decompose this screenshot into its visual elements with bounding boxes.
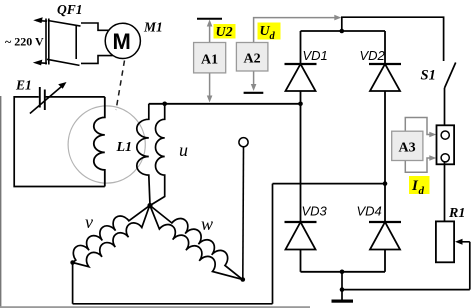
gray link A3 top — [405, 118, 432, 135]
stator winding w (double scalloped line) — [142, 197, 249, 289]
svg-text:S1: S1 — [421, 68, 436, 84]
node: w terminal — [241, 277, 246, 282]
svg-text:E1: E1 — [15, 78, 32, 93]
node ground junction — [340, 287, 345, 292]
svg-text:A3: A3 — [399, 141, 416, 156]
switch S1 — [445, 63, 456, 89]
wire bottom right run — [342, 289, 470, 291]
stator winding u (double scalloped line) — [137, 104, 150, 206]
wire AC2 riser — [272, 184, 274, 304]
measuring unit A3 — [392, 131, 423, 160]
diode VD2 — [369, 64, 401, 91]
measuring unit A2 — [236, 43, 268, 72]
ground — [332, 300, 354, 303]
wire S1 to current terminal block — [444, 88, 446, 132]
terminal bar above A1 — [197, 18, 222, 20]
label Id — [409, 176, 430, 194]
common bar below A2 — [244, 92, 264, 94]
svg-text:v: v — [85, 212, 93, 232]
svg-text:VD1: VD1 — [303, 48, 328, 63]
diode VD1 — [285, 64, 317, 91]
resistor R1 — [436, 221, 454, 262]
gray arrow A2 down — [253, 72, 255, 88]
svg-text:R1: R1 — [448, 206, 465, 221]
node DC- tap — [340, 270, 345, 275]
svg-text:d: d — [270, 31, 276, 42]
gray arrow A1 up — [209, 24, 211, 43]
bridge bottom rail DC- — [301, 271, 386, 273]
bridge right leg wire — [384, 31, 386, 64]
arrowhead bottom supply — [33, 60, 43, 66]
svg-text:w: w — [201, 214, 213, 234]
node AC2 joins right leg — [383, 181, 388, 186]
node: star point — [147, 203, 152, 208]
svg-text:M: M — [113, 29, 131, 54]
current terminal block — [437, 125, 455, 164]
arrowhead top supply — [33, 17, 43, 23]
wire AC2 horizontal to right leg — [273, 183, 386, 185]
svg-text:u: u — [179, 140, 188, 160]
scan artifact left edge — [0, 96, 1, 308]
svg-text:A1: A1 — [201, 53, 218, 68]
diode VD3 — [285, 222, 317, 250]
label U2 — [214, 24, 236, 39]
node: v terminal — [70, 260, 75, 265]
wire QF1 to motor bottom — [81, 56, 113, 64]
open terminal of w — [242, 147, 245, 280]
diode VD4 — [369, 222, 401, 250]
bridge top rail DC+ — [301, 30, 386, 32]
wire bottom left run — [73, 303, 273, 305]
wire QF1 to motor top — [81, 23, 110, 30]
bridge left leg wire — [300, 31, 302, 64]
motor M1 — [105, 23, 140, 58]
E1 loop box — [14, 97, 105, 187]
svg-text:QF1: QF1 — [57, 2, 83, 17]
scan artifact bottom edge — [0, 306, 310, 308]
capacitor-style bars of E1 — [39, 87, 41, 108]
adjust arrow E1 — [30, 87, 62, 114]
stator winding v (double scalloped line) — [66, 197, 157, 273]
svg-text:VD3: VD3 — [302, 204, 328, 219]
wire DC- to ground — [341, 272, 343, 300]
wiper arrow R1 — [459, 241, 470, 243]
wire AC1: u-top to bridge left leg — [149, 103, 301, 105]
gray arrow A1 down — [209, 73, 211, 98]
label Ud — [258, 23, 281, 40]
machine boundary circle — [68, 106, 145, 183]
gray arrow A2 to DC+ rail — [254, 18, 338, 42]
gray link A3 bottom — [405, 158, 432, 172]
wire riser to S1 — [342, 17, 444, 61]
node: tap on AC1 wire — [162, 102, 167, 107]
inductor L1 (right edge of E1 box) — [94, 97, 105, 187]
svg-text:M1: M1 — [143, 20, 163, 35]
wire block to R1 — [444, 162, 446, 221]
node AC1 joins left leg — [298, 102, 303, 107]
svg-text:VD4: VD4 — [357, 204, 382, 219]
svg-text:A2: A2 — [244, 52, 261, 67]
svg-text:~ 220 V: ~ 220 V — [5, 35, 44, 49]
svg-text:d: d — [419, 185, 425, 197]
measuring unit A1 — [194, 43, 226, 73]
wire v terminal down — [72, 263, 74, 304]
dashed shaft link motor to L1 — [116, 61, 125, 111]
svg-text:L1: L1 — [116, 140, 133, 155]
breaker QF1 — [36, 19, 81, 66]
svg-text:VD2: VD2 — [360, 48, 386, 63]
node on DC+ rail — [340, 29, 345, 34]
svg-text:U2: U2 — [216, 25, 233, 40]
